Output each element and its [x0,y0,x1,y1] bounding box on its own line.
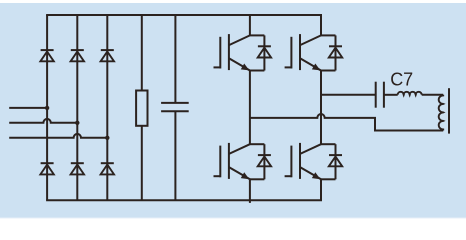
svg-text:C7: C7 [390,69,413,89]
